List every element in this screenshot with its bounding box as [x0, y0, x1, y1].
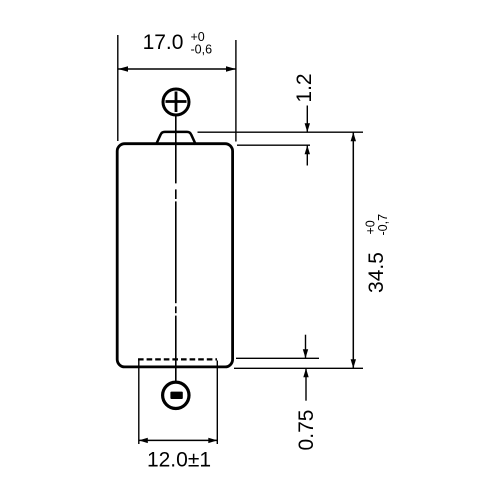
svg-text:-0,7: -0,7: [376, 214, 390, 236]
plus polarity symbol: [163, 89, 189, 115]
svg-text:17.0: 17.0: [143, 31, 184, 54]
dim 0.75: seam-level extension line: [236, 357, 319, 359]
minus polarity symbol: [163, 382, 189, 408]
dim 34.5: bottom arrowhead: [351, 359, 356, 368]
dim 12.0: right extension line: [216, 361, 218, 445]
dim 1.2: lower leader with up arrow: [306, 145, 308, 165]
positive terminal bump: [156, 132, 196, 145]
dim 34.5: value text with tolerance: [364, 214, 390, 293]
dim 1.2: bump-top extension line: [198, 131, 364, 133]
dim 1.2: body-top extension line: [237, 144, 310, 146]
dim 17.0: left extension line: [117, 35, 119, 141]
svg-text:0.75: 0.75: [295, 410, 318, 451]
dim 17.0: dimension line: [118, 68, 236, 70]
battery body outline: [117, 144, 232, 367]
dim 0.75: bottom-level extension line: [234, 367, 363, 369]
dim 12.0: right arrowhead: [208, 438, 217, 443]
center line: [175, 116, 177, 382]
svg-text:34.5: 34.5: [365, 252, 388, 293]
svg-text:12.0±1: 12.0±1: [147, 448, 211, 471]
svg-text:-0,6: -0,6: [191, 43, 213, 57]
dim 1.2: upper leader with down arrow: [306, 106, 308, 133]
dim 12.0: left extension line: [138, 361, 140, 445]
dim 17.0: right arrowhead: [226, 66, 236, 72]
svg-text:1.2: 1.2: [293, 73, 316, 102]
dim 17.0: right extension line: [235, 40, 237, 142]
dim 12.0: left arrowhead: [139, 438, 148, 443]
dim 34.5: dimension line: [352, 132, 354, 368]
dashed seam line: [138, 358, 217, 360]
dim 0.75: upper leader with down arrow: [305, 335, 307, 359]
dim 17.0: left arrowhead: [118, 66, 128, 72]
dim 34.5: top arrowhead: [351, 132, 356, 141]
dim 12.0: dimension line: [139, 439, 218, 441]
dim 0.75: lower leader with up arrow: [305, 368, 307, 400]
